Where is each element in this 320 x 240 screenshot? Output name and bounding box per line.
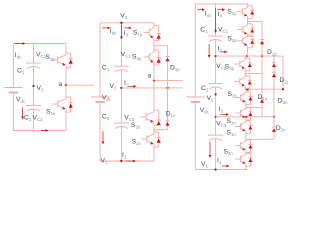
svg-text:1p: 1p bbox=[272, 52, 277, 57]
svg-text:C1: C1 bbox=[125, 54, 131, 59]
svg-text:a: a bbox=[59, 81, 63, 88]
svg-text:1n: 1n bbox=[262, 97, 267, 102]
svg-text:C1: C1 bbox=[223, 29, 229, 34]
svg-text:1n: 1n bbox=[51, 111, 56, 116]
svg-text:2p: 2p bbox=[137, 56, 142, 61]
svg-text:3p: 3p bbox=[229, 66, 234, 71]
svg-text:1n: 1n bbox=[136, 141, 141, 146]
svg-text:2n: 2n bbox=[136, 125, 141, 130]
svg-text:3n: 3n bbox=[283, 100, 288, 105]
svg-text:1p: 1p bbox=[232, 11, 237, 16]
svg-text:1p: 1p bbox=[50, 57, 55, 62]
svg-text:1p: 1p bbox=[138, 32, 143, 37]
svg-text:2n: 2n bbox=[231, 121, 236, 126]
svg-text:3n: 3n bbox=[232, 94, 237, 99]
svg-text:C2: C2 bbox=[37, 117, 43, 122]
svg-text:2p: 2p bbox=[232, 38, 237, 43]
svg-text:1n: 1n bbox=[231, 132, 236, 137]
svg-text:1n: 1n bbox=[171, 113, 176, 118]
svg-text:4n: 4n bbox=[228, 151, 233, 156]
svg-text:a: a bbox=[148, 73, 152, 80]
svg-text:1p: 1p bbox=[175, 67, 180, 72]
svg-text:2p: 2p bbox=[284, 80, 288, 85]
svg-text:2n: 2n bbox=[281, 128, 286, 133]
